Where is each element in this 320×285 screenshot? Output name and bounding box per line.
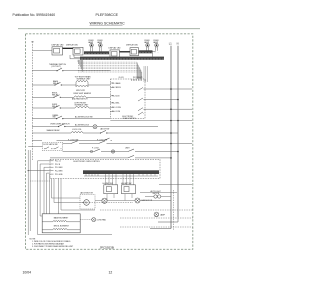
EOC bottom drops to oven box xyxy=(59,179,96,214)
row 4: surface element circuit xyxy=(32,103,110,109)
oven element box xyxy=(42,214,80,233)
relay board RB1 xyxy=(110,79,145,119)
display board DSP1 xyxy=(52,47,63,55)
lamp LP3 leads xyxy=(147,47,149,51)
row into EOC pin 4 xyxy=(28,170,50,172)
svg-text:DISPLAY LED: DISPLAY LED xyxy=(109,46,122,49)
svg-text:LIMIT: LIMIT xyxy=(125,148,130,150)
svg-text:P2-1 L1: P2-1 L1 xyxy=(55,161,61,163)
svg-text:DISPLAY LED: DISPLAY LED xyxy=(52,43,65,46)
N bus wire xyxy=(177,46,179,217)
display board DSP2 xyxy=(73,47,83,55)
latch switch S1 xyxy=(44,147,53,149)
left drop wire 1 xyxy=(28,150,30,235)
latch row 3 wire xyxy=(50,157,171,159)
oven feed elbow w5 xyxy=(49,174,51,214)
lamp LP2 leads xyxy=(100,47,102,52)
latch row switch B xyxy=(128,149,134,152)
svg-text:AC INTERLOCK: AC INTERLOCK xyxy=(75,123,90,126)
lamp LP1 leads xyxy=(91,47,93,52)
oven lamp LP1 xyxy=(90,43,94,47)
wire rail to DSP1 xyxy=(33,50,53,52)
note block xyxy=(30,238,74,248)
element coil side wires xyxy=(42,222,80,230)
dashed run bottom c xyxy=(120,217,193,219)
svg-text:P1-1 BAKE: P1-1 BAKE xyxy=(112,82,121,85)
svg-text:OVEN CONTROL: OVEN CONTROL xyxy=(122,118,136,120)
feeds from band C to T1 xyxy=(106,174,117,185)
svg-text:DISPLAY LED: DISPLAY LED xyxy=(66,43,79,46)
oven feed elbow w2 xyxy=(40,164,50,216)
band C stub ticks xyxy=(86,174,155,176)
svg-text:P2-5 GND: P2-5 GND xyxy=(55,174,63,176)
EOC pin stubs xyxy=(50,161,54,174)
svg-text:Publication No. 5995419460: Publication No. 5995419460 xyxy=(13,13,56,17)
RB1 relay contact K2 xyxy=(138,98,145,101)
svg-text:JPC5923B: JPC5923B xyxy=(100,246,114,250)
svg-text:DISPLAY LED: DISPLAY LED xyxy=(126,43,139,46)
oven cavity lamp xyxy=(93,125,97,129)
svg-text:CONV FAN: CONV FAN xyxy=(97,218,107,221)
svg-text:SURFACE UNIT: SURFACE UNIT xyxy=(75,104,90,107)
ribbon cable band A right xyxy=(139,50,153,53)
display board DSP3 xyxy=(110,50,120,58)
dashed run bottom a xyxy=(82,201,133,203)
oven lamp LP4 xyxy=(155,43,159,47)
transformer T1 xyxy=(104,185,118,194)
RB1 pin row labels xyxy=(112,82,122,113)
right wire y192 xyxy=(140,191,177,193)
harness wires right of EOC xyxy=(144,66,148,82)
svg-text:SURFACE UNIT: SURFACE UNIT xyxy=(77,78,92,81)
svg-text:OVEN VENT HEATER: OVEN VENT HEATER xyxy=(73,92,92,95)
T1 bottom stubs xyxy=(107,194,114,201)
cooling fan motor M2 xyxy=(135,198,140,203)
RB1 output wire K2 xyxy=(145,99,178,101)
oven feed elbow w3 xyxy=(44,167,50,214)
svg-text:BAKE ELEMENT: BAKE ELEMENT xyxy=(54,217,69,220)
L1 bus bottom elbow xyxy=(150,228,171,230)
convection motor CM xyxy=(92,218,96,222)
svg-text:LAMP: LAMP xyxy=(160,213,166,216)
latch relay contact B xyxy=(99,141,105,144)
row 7: lock coil circuit xyxy=(32,127,178,133)
RB1 relay contact K3 xyxy=(138,108,145,111)
latch row 1 wire xyxy=(63,143,192,145)
RB1 top pin ticks xyxy=(132,79,142,81)
ribbon harness drops into EOC xyxy=(137,62,142,79)
band C pin ticks xyxy=(85,175,157,177)
svg-text:(CUTOUT): (CUTOUT) xyxy=(52,66,61,68)
svg-text:LOCK COIL: LOCK COIL xyxy=(72,129,82,131)
ribbon cable band A left xyxy=(84,51,109,54)
feeds from band C to RM1 xyxy=(123,174,134,185)
pilot lamp small xyxy=(90,150,92,152)
bake element coil xyxy=(53,221,67,222)
RB1 output wire K1 xyxy=(145,88,192,90)
svg-text:P3 12345678: P3 12345678 xyxy=(133,77,142,79)
oven lamp LP3 xyxy=(146,43,150,47)
ribbon harness fan-out wires xyxy=(78,62,142,72)
svg-text:12: 12 xyxy=(109,270,113,274)
row 5: interlock feed xyxy=(32,114,110,119)
svg-text:RELAY: RELAY xyxy=(52,94,59,97)
EOC pin labels xyxy=(55,161,63,176)
svg-text:P. LOCK SW: P. LOCK SW xyxy=(97,139,108,141)
oven lamp bottom xyxy=(154,212,159,217)
right mid dashed riser xyxy=(172,190,174,230)
door latch switch box xyxy=(42,142,62,150)
fan feed wire xyxy=(95,200,171,202)
row 2: bake element circuit xyxy=(32,76,110,87)
svg-text:AC INTERLOCK SW: AC INTERLOCK SW xyxy=(75,116,93,119)
bus crossing wire row a xyxy=(110,120,192,122)
svg-text:10/04: 10/04 xyxy=(23,271,32,275)
band connector teeth xyxy=(82,52,163,60)
svg-text:3. DISCONNECT POWER WHEN SERVI: 3. DISCONNECT POWER WHEN SERVICING UNIT xyxy=(32,246,74,248)
header title underline xyxy=(90,25,123,27)
oven lamp LP2 xyxy=(99,43,103,47)
svg-text:OVEN LIGHT SWITCH: OVEN LIGHT SWITCH xyxy=(50,124,70,126)
ribbon harness left risers xyxy=(78,60,83,72)
svg-text:P2-3 SEN: P2-3 SEN xyxy=(55,167,63,169)
svg-text:LATCH SW: LATCH SW xyxy=(100,127,109,130)
latch switch S2 xyxy=(54,147,62,149)
broil element coil xyxy=(53,229,67,230)
N bus bottom elbow xyxy=(158,217,178,222)
latch row 2 wire xyxy=(63,151,178,153)
RB1 relay contact K1 xyxy=(138,88,145,91)
RB1 relay contact K4 xyxy=(138,112,144,115)
svg-text:P2-2 N: P2-2 N xyxy=(55,164,61,166)
row 1: thermal switch circuit xyxy=(32,63,110,71)
EOC bottom drop bundle to latch motor xyxy=(52,179,84,203)
door motor DM xyxy=(102,198,107,203)
svg-text:P. LOCK: P. LOCK xyxy=(92,148,100,150)
left dotted link xyxy=(30,180,50,182)
ribbon cable band C xyxy=(83,170,159,174)
svg-text:WIRING SCHEMATIC: WIRING SCHEMATIC xyxy=(90,21,126,25)
latch row 3 switch xyxy=(128,155,134,158)
svg-text:BROIL ELEMENT: BROIL ELEMENT xyxy=(54,225,70,227)
lamp LP4 leads xyxy=(153,47,158,57)
svg-text:P2-4 SEN: P2-4 SEN xyxy=(55,170,63,172)
header rule xyxy=(18,28,200,30)
RB1 output wire K3 xyxy=(145,108,192,110)
auto light switch contacts xyxy=(154,195,157,198)
latch feed wire xyxy=(28,146,42,148)
latch relay contact A xyxy=(71,141,78,144)
relay module RM1 xyxy=(122,185,136,194)
svg-text:SHADE RELAY: SHADE RELAY xyxy=(47,129,61,132)
row 8: latch switch run xyxy=(32,138,112,141)
right wire y184 xyxy=(159,183,192,185)
schematic outer border xyxy=(26,34,193,250)
row 6: oven light circuit xyxy=(32,123,158,128)
display board DSP4 xyxy=(130,48,139,56)
RM1 bottom stubs xyxy=(125,194,132,201)
svg-text:L1: L1 xyxy=(169,41,172,45)
oven feed elbow w4 xyxy=(47,173,51,214)
latch motor box xyxy=(80,195,95,210)
auto light wire xyxy=(145,196,171,198)
EOC box xyxy=(50,159,160,178)
svg-text:DOOR LATCH SW: DOOR LATCH SW xyxy=(43,143,58,146)
band B left feed wires xyxy=(70,55,80,59)
latch row switch A xyxy=(94,149,100,152)
RB1 pin stubs xyxy=(110,83,114,112)
ribbon cable band B xyxy=(80,57,164,60)
dashed run bottom b xyxy=(100,209,193,211)
svg-text:P. LOCK SW: P. LOCK SW xyxy=(68,139,79,141)
left supply rail xyxy=(32,42,34,161)
ribbon link DSP1-DSP2 xyxy=(63,47,74,49)
svg-text:VENT HTR: VENT HTR xyxy=(76,90,86,92)
dashed run bottom d xyxy=(120,226,193,228)
svg-text:N: N xyxy=(177,41,179,45)
svg-text:ELECTRONIC OVEN CONTROL: ELECTRONIC OVEN CONTROL xyxy=(74,161,100,163)
ribbon link DSP3-DSP4 xyxy=(120,51,131,53)
svg-text:PLEF398CCE: PLEF398CCE xyxy=(96,13,119,17)
L1 bus wire xyxy=(170,46,172,229)
convection motor lead xyxy=(80,219,92,221)
latch indicator lamp xyxy=(111,150,114,153)
svg-text:LATCH MOTOR: LATCH MOTOR xyxy=(80,192,94,195)
oven feed elbow w1 xyxy=(38,161,113,235)
latch motor M1 xyxy=(84,200,90,206)
svg-text:AND FAN SWITCH: AND FAN SWITCH xyxy=(72,98,88,101)
svg-text:M: M xyxy=(85,202,87,205)
row 3: broil element circuit xyxy=(32,90,110,100)
